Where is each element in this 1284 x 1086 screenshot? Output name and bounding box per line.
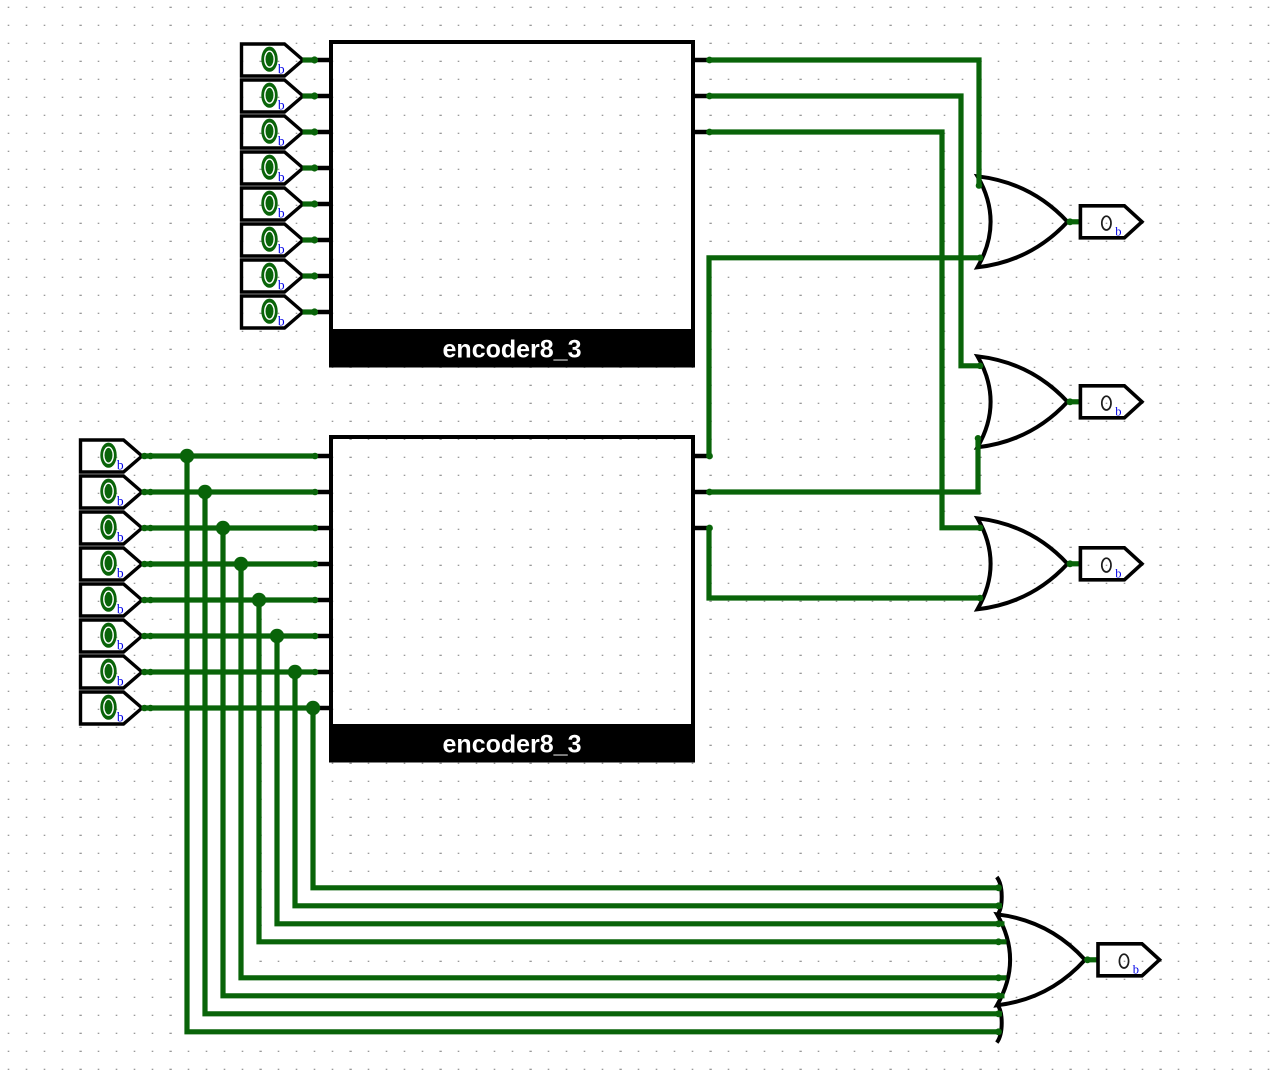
wire U5.out to output pin O3 (1067, 560, 1081, 567)
U1 output pin lead out2 (693, 130, 709, 135)
input pin I16 value 0b (81, 692, 143, 725)
svg-text:encoder8_3: encoder8_3 (443, 731, 582, 759)
U2 output pin lead out2 (693, 526, 709, 531)
wire I4 to U1.in3 (303, 164, 319, 171)
U2 input pin lead 5 (314, 634, 331, 639)
wire I1 to U1.in0 (303, 56, 319, 63)
input pin I15 value 0b (81, 656, 143, 689)
wire U3.out to output pin O1 (1067, 218, 1081, 225)
U2 output pin lead out0 (693, 454, 709, 459)
U2 input pin lead 6 (314, 670, 331, 675)
wire branch node6 down to U6 input (295, 672, 1002, 909)
input pin I3 value 0b (242, 116, 304, 149)
output pin O2 value 0b (1080, 386, 1142, 419)
wire branch node4 down to U6 input (259, 600, 1007, 945)
junction at node2 (216, 521, 230, 535)
U1 input pin lead 1 (314, 94, 331, 99)
junction at node4 (252, 593, 266, 607)
U2 input pin lead 3 (314, 562, 331, 567)
junction at node5 (270, 629, 284, 643)
wire I15 to U2.in6 (141, 669, 318, 676)
or-gate U4 (978, 356, 1068, 447)
wire branch node2 down to U6 input (223, 528, 1005, 999)
wire U4.out to output pin O2 (1067, 398, 1081, 405)
wire I8 to U1.in7 (303, 308, 319, 315)
encoder U1 encoder8_3 block body (329, 42, 695, 368)
junction at node7 (306, 701, 320, 715)
wire U1.out2 to U5 upper input (706, 129, 983, 531)
U1 input pin lead 2 (314, 130, 331, 135)
input pin I9 value 0b (81, 440, 143, 473)
wire I11 to U2.in2 (141, 525, 318, 532)
input pin I1 value 0b (242, 44, 304, 77)
U2 output pin lead out1 (693, 490, 709, 495)
wire U1.out1 to U4 upper input (706, 93, 983, 370)
wire U2.out1 to U4 lower input (706, 435, 981, 495)
wire I9 to U2.in0 (141, 453, 318, 460)
input pin I4 value 0b (242, 152, 304, 185)
input pin I10 value 0b (81, 476, 143, 509)
output pin O4 value 0b (1098, 944, 1160, 977)
wire I2 to U1.in1 (303, 92, 319, 99)
U2 input pin lead 4 (314, 598, 331, 603)
input pin I5 value 0b (242, 188, 304, 221)
wire I3 to U1.in2 (303, 128, 319, 135)
U1 input pin lead 3 (314, 166, 331, 171)
or-gate U5 (978, 518, 1068, 609)
U1 output pin lead out0 (693, 58, 709, 63)
wire U1.out0 to U3 upper input (706, 57, 982, 189)
wire U6.out to output pin O4 (1084, 956, 1098, 963)
input pin I7 value 0b (242, 260, 304, 293)
wire I14 to U2.in5 (141, 633, 318, 640)
wire I7 to U1.in6 (303, 272, 319, 279)
wire branch node3 down to U6 input (241, 564, 1007, 981)
wire I16 to U2.in7 (141, 705, 318, 712)
U2 input pin lead 2 (314, 526, 331, 531)
U2 input pin lead 0 (314, 454, 331, 459)
input pin I6 value 0b (242, 224, 304, 257)
output pin O3 value 0b (1080, 548, 1142, 581)
output pin O1 value 0b (1080, 206, 1142, 239)
U2 input pin lead 1 (314, 490, 331, 495)
wire branch node1 down to U6 input (205, 492, 1002, 1017)
U1 input pin lead 4 (314, 202, 331, 207)
wire U2.out2 to U5 lower input (706, 525, 983, 602)
input pin I11 value 0b (81, 512, 143, 545)
input pin I13 value 0b (81, 584, 143, 617)
input pin I12 value 0b (81, 548, 143, 581)
svg-text:encoder8_3: encoder8_3 (443, 336, 582, 364)
junction at node6 (288, 665, 302, 679)
U1 input pin lead 6 (314, 274, 331, 279)
U1 input pin lead 0 (314, 58, 331, 63)
wire I12 to U2.in3 (141, 561, 318, 568)
or-gate U3 (978, 176, 1068, 267)
wire I6 to U1.in5 (303, 236, 319, 243)
wire U2.out0 to U3 lower input (706, 254, 983, 459)
input pin I2 value 0b (242, 80, 304, 113)
wire I5 to U1.in4 (303, 200, 319, 207)
encoder U2 encoder8_3 block body (329, 437, 695, 763)
U1 input pin lead 5 (314, 238, 331, 243)
input pin I14 value 0b (81, 620, 143, 653)
U1 input pin lead 7 (314, 310, 331, 315)
U2 input pin lead 7 (314, 706, 331, 711)
wire branch node7 down to U6 input (313, 708, 1002, 891)
junction at node3 (234, 557, 248, 571)
junction at node0 (180, 449, 194, 463)
wire I13 to U2.in4 (141, 597, 318, 604)
input pin I8 value 0b (242, 296, 304, 329)
junction at node1 (198, 485, 212, 499)
U1 output pin lead out1 (693, 94, 709, 99)
wire I10 to U2.in1 (141, 489, 318, 496)
or-gate U6 (8-input) body (997, 877, 1085, 1043)
wire branch node5 down to U6 input (277, 636, 1005, 927)
wire branch node0 down to U6 input (187, 456, 1002, 1035)
